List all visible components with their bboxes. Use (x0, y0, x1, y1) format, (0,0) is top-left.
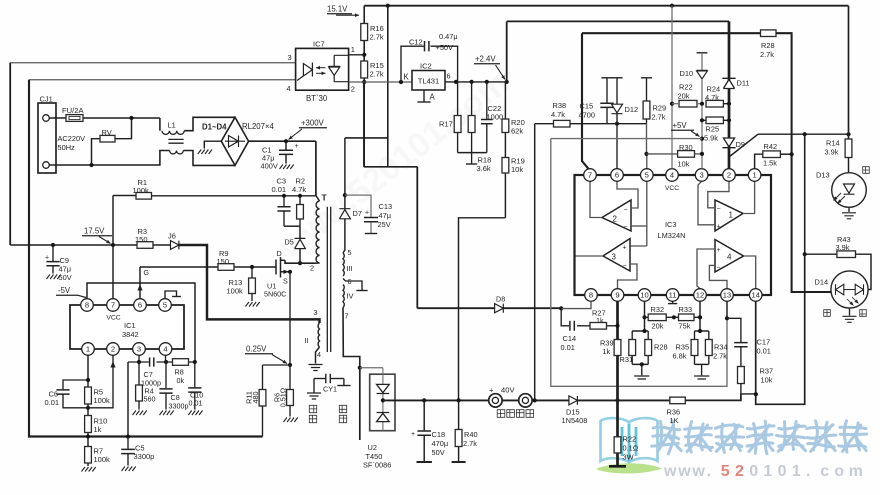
node K wire / R15 (362, 80, 366, 84)
node R2 top (298, 194, 302, 198)
resistor R17 (457, 82, 459, 153)
svg-text:0.01: 0.01 (45, 398, 60, 407)
IC1 pin 8 (81, 299, 94, 312)
wire +5V row (551, 138, 702, 140)
svg-text:0.01: 0.01 (757, 347, 771, 356)
svg-text:6: 6 (348, 277, 352, 286)
svg-text:1: 1 (729, 211, 734, 220)
resistors R31 parallel pair (632, 330, 648, 332)
resistor R40 (458, 400, 460, 429)
svg-text:1k: 1k (94, 425, 102, 434)
svg-text:RL207×4: RL207×4 (242, 122, 275, 131)
svg-text:R30: R30 (679, 143, 693, 152)
svg-text:CJ1: CJ1 (40, 95, 53, 104)
zener D12 (611, 77, 622, 79)
output terminal - (519, 394, 532, 407)
svg-text:3300p: 3300p (134, 452, 155, 461)
wire left frame inner + bottom sense wire (29, 80, 263, 437)
diode D5 (295, 238, 306, 248)
wire R1 to snubber row (152, 195, 316, 197)
wire winding IV to U2 (343, 308, 360, 368)
dual LED D14 (831, 271, 868, 308)
wire aux supply to winding II (179, 245, 320, 323)
svg-text:2.7k: 2.7k (370, 33, 384, 42)
ground R7 (82, 467, 96, 472)
svg-text:−: − (717, 206, 721, 213)
diode D8 (495, 304, 504, 313)
capacitor C10 (194, 362, 196, 387)
svg-text:w: w (663, 463, 677, 480)
wire sense row (263, 364, 291, 366)
node +5V (700, 137, 704, 141)
svg-text:+300V: +300V (301, 119, 325, 128)
resistor R2 (299, 196, 301, 226)
node R14 top (846, 132, 850, 136)
resistor R20 (504, 82, 506, 218)
resistor R22 0.1ohm (614, 437, 621, 453)
svg-text:+: + (489, 386, 494, 395)
svg-text:2: 2 (613, 215, 618, 224)
IC7 coupling arrow lower (316, 72, 326, 74)
resistor R9 (218, 264, 234, 271)
svg-text:1000: 1000 (487, 113, 504, 122)
node opto pin1 / R16-R15 (362, 53, 366, 57)
svg-text:3: 3 (137, 345, 141, 354)
svg-text:−: − (624, 207, 628, 214)
node aux rect (343, 193, 347, 197)
svg-text:+: + (295, 143, 299, 150)
connector CJ1 box (38, 103, 56, 173)
capacitor C22 (486, 82, 488, 119)
wire to op2 in+ (631, 225, 647, 227)
wire R36 to op4 fb (685, 394, 741, 401)
svg-text:40V: 40V (501, 386, 515, 395)
wire down to D8 row (416, 167, 418, 308)
wire pin6 gate drive up (139, 267, 141, 299)
wire feedback to IC7 pin4 (29, 79, 296, 81)
wire pin11 stub (672, 301, 674, 303)
capacitor C1 electrolytic (285, 141, 287, 150)
svg-text:R34: R34 (714, 343, 728, 352)
wire pin9 column (616, 301, 619, 437)
op-amp section 3 (603, 239, 630, 272)
wire IC3 VCC column (671, 6, 673, 169)
svg-text:C14: C14 (563, 334, 577, 343)
svg-text:R38: R38 (553, 101, 567, 110)
wire CY1 cold leg (343, 379, 345, 386)
svg-text:−: − (624, 224, 628, 231)
wire left frame outer (9, 63, 11, 245)
watermark: green swoosh (596, 463, 662, 473)
wire pin2 to op1 inv (708, 181, 729, 208)
inductor L1 common-mode choke (162, 131, 184, 135)
svg-text:11: 11 (669, 291, 677, 300)
svg-text:R31: R31 (620, 355, 634, 364)
ground C9 (47, 275, 61, 280)
svg-text:5.9k: 5.9k (704, 134, 718, 143)
IC1 pin 7 (107, 299, 120, 312)
resistor R15 (361, 61, 368, 78)
IC3 pin 13 (721, 289, 734, 302)
svg-text:12: 12 (696, 291, 704, 300)
wire pin5 stub (165, 291, 177, 299)
resistor R1 (136, 193, 152, 200)
node K C12 tap (399, 80, 403, 84)
svg-text:IC3: IC3 (665, 220, 677, 229)
wire between terminals (502, 399, 519, 401)
IC3 pin 4 (666, 169, 679, 182)
svg-text:III: III (347, 264, 353, 273)
node FB (615, 122, 619, 126)
wire pin8 Vref loop (87, 283, 195, 362)
svg-text:S: S (283, 277, 288, 286)
wire CS to sense wire (127, 362, 129, 437)
svg-text:75k: 75k (679, 322, 691, 331)
zener D10 (697, 52, 708, 54)
svg-text:3W: 3W (623, 453, 634, 462)
svg-text:15.1V: 15.1V (327, 5, 348, 14)
svg-text:100k: 100k (227, 287, 244, 296)
capacitor C18 electrolytic (423, 400, 425, 430)
wire pin1 up to R42 (755, 154, 763, 169)
svg-text:+5V: +5V (673, 121, 688, 130)
node C18 (422, 398, 426, 402)
svg-text:D5: D5 (285, 238, 294, 247)
svg-text:150: 150 (135, 235, 148, 244)
wire R3 to J6 (153, 244, 171, 246)
svg-text:C12: C12 (409, 38, 423, 47)
wire pin12 to op4 + (697, 249, 715, 289)
svg-text:IC7: IC7 (313, 40, 325, 49)
svg-text:0.01: 0.01 (561, 343, 575, 352)
node drain clamp (298, 261, 302, 265)
wire D7 node horizontal (345, 137, 388, 139)
connector CJ1 terminals (43, 115, 50, 122)
svg-text:0: 0 (749, 463, 758, 480)
svg-text:1K: 1K (670, 416, 679, 425)
capacitor C15 (601, 77, 612, 79)
wire R43 to D14 right (856, 254, 872, 289)
svg-text:+: + (623, 245, 627, 252)
svg-text:8: 8 (85, 301, 89, 310)
wire +2.4V node row (445, 81, 507, 83)
node on sense wire (86, 434, 90, 438)
IC1 pin 4 (159, 343, 172, 356)
resistor R7 (85, 447, 92, 464)
ground R6 (284, 418, 298, 423)
svg-text:10k: 10k (761, 376, 773, 385)
wire live in (49, 117, 66, 119)
wire pin10 down (644, 301, 646, 331)
svg-text:1k: 1k (603, 347, 611, 356)
wire to op3 in+ (630, 245, 647, 247)
node RV bottom (89, 163, 93, 167)
capacitor C17 + resistor R37 (727, 318, 741, 342)
wire output sense to R38 (535, 123, 554, 125)
output terminal + (489, 394, 502, 407)
svg-text:G: G (144, 270, 149, 277)
IC7 coupling arrow upper (316, 67, 326, 69)
capacitor CY1 (314, 378, 325, 380)
IC3 pin 5 (641, 169, 654, 182)
IC1 pin 6 (134, 299, 147, 312)
resistors R35/R34 parallel pair (695, 330, 709, 332)
wire jog to D8 column (364, 166, 418, 168)
svg-text:R28: R28 (761, 41, 775, 50)
svg-text:4: 4 (163, 345, 167, 354)
svg-text:6: 6 (447, 72, 451, 81)
capacitor C14 (570, 321, 574, 331)
svg-text:5: 5 (645, 171, 649, 180)
svg-text:400V: 400V (261, 162, 278, 171)
node 0.25V sense (288, 363, 292, 367)
svg-text:10k: 10k (678, 160, 690, 169)
wire D7 column top (344, 138, 346, 209)
resistor R36 (670, 397, 686, 404)
svg-text:1N5408: 1N5408 (562, 416, 588, 425)
svg-text:RV: RV (102, 128, 112, 137)
wire R1 left (113, 195, 136, 197)
capacitor C14 + resistor R27 (561, 309, 569, 326)
svg-text:4: 4 (670, 171, 674, 180)
resistor R3 (137, 242, 153, 249)
node RV top (129, 116, 133, 120)
svg-text:.: . (707, 463, 711, 480)
node C5 (126, 434, 130, 438)
svg-text:2.7k: 2.7k (760, 50, 774, 59)
svg-text:20k: 20k (652, 322, 664, 331)
svg-text:R35: R35 (676, 343, 690, 352)
wire R1 to VCC node (112, 196, 114, 246)
svg-text:+: + (365, 210, 369, 217)
IC3 pin 10 (638, 289, 651, 302)
resistor R19 (502, 158, 509, 174)
svg-text:−: − (717, 265, 721, 272)
wire R17/R18/C22 bottom bar (458, 152, 487, 154)
node D8/C14/pin8 (559, 306, 563, 310)
wire FB node row (570, 123, 647, 125)
resistor R5 (85, 387, 92, 404)
resistor R25 (706, 117, 723, 124)
node +2.4V column (505, 80, 509, 84)
svg-text:0.01: 0.01 (272, 185, 287, 194)
svg-text:IC1: IC1 (124, 321, 136, 330)
wire R16/R15 column (363, 6, 365, 167)
svg-text:T: T (322, 193, 328, 203)
svg-text:25V: 25V (378, 220, 391, 229)
wire D7 to winding III (343, 219, 345, 253)
IC1 pin 2 (107, 343, 120, 356)
wire pin7 to op2 out (590, 181, 602, 217)
svg-text:3: 3 (288, 53, 292, 62)
node R23 left (670, 102, 674, 106)
svg-text:D8: D8 (496, 295, 505, 304)
wire R28 rail (582, 32, 761, 34)
capacitor C3 (283, 196, 285, 206)
svg-text:SF`0086: SF`0086 (363, 461, 391, 470)
svg-text:100k: 100k (94, 455, 111, 464)
node C22 top (485, 80, 489, 84)
svg-text:0.25V: 0.25V (246, 345, 267, 354)
resistor R28 (761, 30, 777, 37)
svg-text:FU/2A: FU/2A (62, 106, 84, 115)
wire pin3 down (138, 355, 140, 362)
node U2 output (381, 398, 385, 402)
svg-text:4: 4 (727, 253, 732, 262)
wire pin6 to op2 inv (617, 181, 638, 208)
rectifier U2 box (370, 374, 395, 431)
svg-text:0.01: 0.01 (189, 399, 203, 408)
svg-text:20k: 20k (678, 92, 690, 101)
IC3 pin 6 (611, 169, 624, 182)
wire drain to primary (285, 260, 316, 263)
wire C12 return (431, 46, 458, 82)
wire op2 out up to R28 rail (582, 33, 589, 169)
transformer winding III (343, 253, 344, 276)
ground C5 (122, 467, 136, 472)
node R17 top (454, 80, 458, 84)
svg-text:3.9k: 3.9k (836, 243, 850, 252)
svg-text:R40: R40 (464, 430, 478, 439)
svg-text:w: w (677, 463, 691, 480)
IC7 internal photo-element (329, 55, 349, 81)
svg-text:J6: J6 (168, 232, 176, 241)
svg-text:0.51Ω: 0.51Ω (279, 387, 288, 407)
resistor R14 (848, 6, 850, 139)
wire +5V return loop (551, 139, 727, 387)
wire winding II to ground (316, 347, 320, 364)
wire R28 to D14 (776, 33, 831, 292)
svg-text:480: 480 (251, 392, 260, 404)
svg-text:+: + (411, 431, 415, 438)
svg-text:w: w (691, 463, 705, 480)
resistor R11 (262, 365, 264, 390)
svg-text:R22: R22 (623, 435, 637, 444)
svg-text:R14: R14 (826, 139, 840, 148)
svg-text:7: 7 (345, 312, 349, 321)
svg-text:VCC: VCC (665, 185, 679, 192)
svg-text:R17: R17 (439, 120, 453, 129)
node R13 top (250, 265, 254, 269)
resistor R16 (361, 24, 368, 41)
wire IC7 pin2 / K to TL431 (349, 81, 412, 83)
svg-text:IC2: IC2 (420, 62, 432, 71)
svg-text:560: 560 (144, 395, 156, 404)
wire R43 column (804, 134, 806, 254)
wire pin13 down (726, 301, 728, 318)
svg-text:5: 5 (163, 301, 167, 310)
node R18 top (470, 80, 474, 84)
capacitor C8 (165, 362, 167, 388)
svg-text:R37: R37 (760, 367, 774, 376)
svg-text:A: A (430, 93, 436, 102)
TL431 anode bar (417, 101, 430, 103)
svg-text:II: II (305, 336, 309, 345)
IC1 pin 3 (133, 343, 146, 356)
svg-text:150: 150 (217, 257, 230, 266)
node pin13/R36 (725, 316, 729, 320)
svg-text:4.7k: 4.7k (551, 110, 565, 119)
op-to-coupler IC7 box (296, 48, 349, 90)
svg-text:2.7k: 2.7k (652, 113, 666, 122)
svg-text:R28: R28 (654, 343, 668, 352)
svg-text:2: 2 (310, 264, 314, 273)
IC3 pin 1 (748, 169, 761, 182)
ground D13 (842, 213, 856, 219)
svg-text:62k: 62k (511, 127, 523, 136)
svg-text:3300p: 3300p (169, 402, 189, 411)
node pin4/C8 (164, 360, 168, 364)
IC3 pin 7 (584, 169, 597, 182)
svg-text:+50V: +50V (436, 43, 454, 52)
ground C8 (160, 411, 174, 416)
ground D14 (843, 316, 857, 322)
svg-text:1: 1 (351, 45, 355, 54)
resistor R33 (679, 314, 695, 321)
svg-text:4: 4 (317, 350, 321, 359)
svg-text:7: 7 (588, 171, 592, 180)
node R8/C10 (193, 360, 197, 364)
svg-text:2: 2 (727, 171, 731, 180)
wire rail down to D7 node (387, 6, 389, 167)
wire op4 out to pin14 (744, 256, 756, 289)
svg-text:6: 6 (138, 301, 142, 310)
svg-text:LM324N: LM324N (658, 231, 686, 240)
node FB divider (86, 406, 90, 410)
svg-text:1: 1 (792, 463, 801, 480)
label 热地 (309, 405, 316, 412)
svg-text:R29: R29 (653, 104, 667, 113)
resistor R32 (648, 314, 666, 321)
svg-text:3.9k: 3.9k (825, 148, 839, 157)
svg-text:C13: C13 (379, 202, 393, 211)
wire pin1 to op1 out (743, 181, 755, 213)
svg-text:c: c (820, 463, 829, 480)
svg-text:o: o (834, 463, 844, 480)
node R23/R24 (700, 102, 704, 106)
ground hot (307, 393, 321, 399)
wire CS filter row right (157, 361, 195, 363)
U2 internal diodes (382, 368, 384, 431)
svg-text:3: 3 (314, 308, 318, 317)
wire bridge ground leg (204, 141, 221, 148)
node R43 tap (803, 132, 807, 136)
IC3 pin 12 (694, 289, 707, 302)
svg-text:R25: R25 (706, 125, 720, 134)
svg-text:2.7k: 2.7k (463, 439, 477, 448)
wire R9 to gate (234, 266, 276, 268)
svg-text:5: 5 (348, 248, 352, 257)
svg-text:BT`30: BT`30 (306, 94, 328, 103)
wire L1 to bridge bottom (183, 151, 235, 166)
transformer winding II (318, 323, 319, 347)
controller IC1 3842 box (70, 305, 184, 349)
resistor R27 (590, 323, 607, 330)
node C3 top (282, 194, 286, 198)
resistor R4 (138, 362, 140, 385)
svg-text:4700: 4700 (579, 111, 595, 120)
svg-text:100k: 100k (94, 396, 111, 405)
wire +2.4V upper rail (507, 20, 729, 22)
resistor R29 (641, 77, 652, 79)
svg-text:0k: 0k (177, 376, 185, 385)
capacitor C12 loop (401, 46, 425, 82)
svg-text:6: 6 (615, 171, 619, 180)
node C9 (51, 243, 55, 247)
wire feedback to IC7 pin3 (10, 62, 295, 64)
svg-text:D11: D11 (737, 79, 750, 88)
node C17/R37 join (754, 392, 758, 396)
